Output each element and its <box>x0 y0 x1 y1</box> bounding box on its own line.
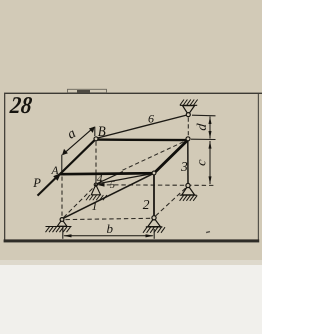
bar 4 S->N <box>96 174 152 184</box>
node B <box>94 137 98 141</box>
dashed wire A->L <box>61 177 63 217</box>
dimension d line with arrows <box>209 116 212 139</box>
dimension b extension at L <box>62 227 64 239</box>
support L (bottom-left pin) <box>46 218 72 233</box>
dashed floor edge S->RS with leader arrow at S <box>97 183 215 187</box>
dimension d extension at R <box>191 138 216 140</box>
dashed wire B->S <box>95 142 97 183</box>
dimension b line with arrows <box>63 234 154 237</box>
svg-text:1: 1 <box>92 199 98 213</box>
plate edge N->R (thick) <box>154 140 189 174</box>
bar 2 N->BS <box>153 175 155 217</box>
support RS (right pin) <box>180 183 198 200</box>
svg-text:3: 3 <box>180 159 188 174</box>
svg-text:B: B <box>98 124 106 140</box>
support S (mid small pin) <box>86 185 107 201</box>
plate edge B->R (thick) <box>96 138 188 141</box>
bar 5 solid part S->plate <box>96 172 123 184</box>
dashed wire T->R <box>187 118 189 137</box>
node R <box>186 137 190 141</box>
support BS (bottom pin) <box>143 216 165 233</box>
bar 6 B->T <box>98 115 188 138</box>
bar 3 R->RS <box>187 141 189 184</box>
svg-text:4: 4 <box>97 174 103 186</box>
svg-text:5: 5 <box>110 180 115 191</box>
svg-text:28: 28 <box>8 93 33 119</box>
bar 5 hidden dashed part S->R <box>123 140 187 170</box>
svg-text:6: 6 <box>148 112 154 126</box>
plate edge A->B (thick) <box>60 139 97 175</box>
dimension b extension at BS <box>153 229 155 239</box>
dimension c line with arrows <box>209 141 212 184</box>
dimension a extension at B <box>94 127 96 136</box>
stub S up to plate edge <box>95 175 97 183</box>
node S <box>94 183 97 186</box>
dashed floor edge L->BS <box>66 218 151 219</box>
cell left border <box>4 93 5 242</box>
cell right border <box>258 94 259 241</box>
dimension d extension at T <box>192 114 216 117</box>
force P arrow <box>38 173 62 196</box>
support T (ceiling pin) <box>180 100 198 117</box>
cell top border <box>4 93 262 94</box>
dashed floor edge BS->RS <box>156 187 187 216</box>
svg-text:P: P <box>32 176 41 190</box>
stray speck right of b line <box>206 231 210 233</box>
plate edge A->N (thick) <box>60 173 155 174</box>
svg-text:2: 2 <box>143 197 150 212</box>
svg-text:b: b <box>107 221 114 236</box>
dimension a extension at A <box>61 155 63 172</box>
bar 1 L->N <box>63 174 153 219</box>
tab above top border <box>68 89 107 93</box>
svg-text:A: A <box>51 165 60 177</box>
paper background <box>0 0 262 263</box>
dimension a line with arrows <box>62 127 95 156</box>
cell bottom border <box>4 239 260 242</box>
node N <box>152 171 156 175</box>
dashed floor edge L->S <box>64 187 95 218</box>
